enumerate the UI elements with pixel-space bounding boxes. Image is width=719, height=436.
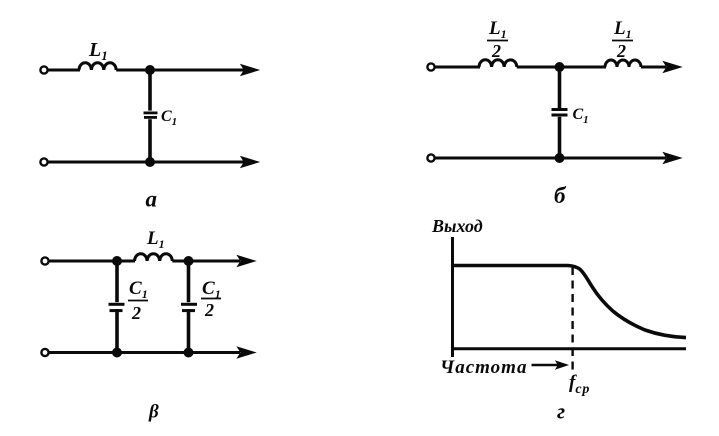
- wire: [187, 309, 191, 353]
- response curve: [453, 266, 686, 338]
- svg-text:Частота: Частота: [440, 357, 527, 378]
- svg-text:а: а: [146, 187, 158, 212]
- input terminal (top-left, fig a): [40, 66, 47, 73]
- wire: [558, 117, 562, 158]
- capacitor C1: [144, 113, 158, 118]
- capacitor C1 (fig b): [552, 110, 568, 116]
- value label L1/2 (first): [487, 18, 508, 61]
- wire: [436, 66, 481, 69]
- wire: [148, 70, 152, 111]
- wire: [148, 119, 152, 162]
- inductor L1 (fig v): [135, 254, 173, 261]
- node junction (fig b top): [555, 62, 565, 72]
- wire: [116, 69, 244, 72]
- wire: [517, 66, 606, 69]
- input terminal (bottom-left, fig b): [427, 154, 434, 161]
- svg-text:Выход: Выход: [431, 216, 483, 236]
- svg-text:2: 2: [491, 41, 501, 61]
- svg-text:β: β: [148, 402, 159, 423]
- capacitor C1/2 (first): [109, 304, 125, 310]
- arrow (fig b bottom output): [664, 153, 682, 164]
- wire: [115, 309, 119, 353]
- wire: [641, 66, 666, 69]
- value label L1/2 (second): [612, 18, 633, 61]
- svg-text:г: г: [557, 399, 565, 424]
- arrow (fig a top output): [241, 65, 259, 76]
- svg-text:б: б: [554, 183, 567, 208]
- wire: [558, 67, 562, 108]
- input terminal (top-left, fig b): [427, 63, 434, 70]
- value label C1/2 (first): [128, 278, 148, 323]
- value label C1/2 (second): [201, 278, 221, 320]
- node junction (fig b bottom): [555, 153, 565, 163]
- wire: [49, 161, 245, 164]
- wire: [49, 69, 81, 72]
- inductor L1/2 (second): [605, 60, 641, 67]
- input terminal (top-left, fig v): [41, 257, 48, 264]
- node junction (fig a bottom): [145, 157, 155, 167]
- inductor L1: [79, 63, 116, 70]
- arrow (frequency direction): [532, 361, 568, 369]
- wire: [50, 351, 241, 354]
- arrow (fig b top output): [664, 62, 682, 73]
- inductor L1/2 (first): [479, 60, 517, 67]
- node junction (fig v top, left): [112, 256, 122, 266]
- node junction (fig v bottom, left): [112, 348, 122, 358]
- input terminal (bottom-left, fig a): [40, 158, 47, 165]
- node junction (fig v bottom, right): [184, 348, 194, 358]
- wire: [115, 261, 119, 302]
- input terminal (bottom-left, fig v): [41, 349, 48, 356]
- wire: [187, 261, 191, 302]
- arrow (fig v top output): [238, 256, 256, 267]
- y-axis: [451, 237, 454, 357]
- svg-text:2: 2: [204, 300, 214, 320]
- wire: [436, 157, 667, 160]
- wire: [50, 260, 136, 263]
- x-axis: [451, 347, 686, 350]
- dashed line at cutoff frequency: [571, 267, 573, 371]
- wire: [172, 260, 240, 263]
- node junction (fig a top): [145, 65, 155, 75]
- arrow (fig v bottom output): [238, 347, 256, 358]
- svg-text:2: 2: [616, 41, 626, 61]
- capacitor C1/2 (second): [181, 304, 197, 310]
- node junction (fig v top, right): [184, 256, 194, 266]
- arrow (fig a bottom output): [241, 157, 259, 168]
- svg-text:2: 2: [131, 303, 141, 323]
